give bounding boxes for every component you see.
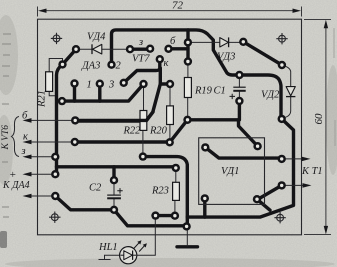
wire: K DA4 trace to C2 bottom and ground pad bbox=[55, 196, 186, 226]
wire: VD1 BR pad stub to diagonal bbox=[257, 199, 270, 210]
pad VD2 bottom bbox=[278, 115, 286, 123]
wire: b arrow line bbox=[31, 119, 75, 121]
wire: VD2 diode line bbox=[282, 65, 291, 117]
wire: VD1 BL pad stub down bbox=[203, 198, 206, 217]
pad VD3 right bbox=[239, 38, 247, 46]
left connection arrows bbox=[31, 120, 75, 196]
mounting hole top-left bbox=[51, 33, 62, 44]
wire: R20 top lead bbox=[169, 84, 171, 106]
pad C1 bottom bbox=[235, 97, 243, 105]
wire: pads 1/2 stub row to y101 trace bbox=[75, 84, 100, 102]
pad R22 top bbox=[139, 80, 147, 88]
pad b top bbox=[164, 45, 172, 53]
wire: VD3 right pad diagonal to VD2 top pad bbox=[243, 42, 282, 65]
wire: R19 bottom lead bbox=[187, 98, 189, 120]
pad VD4 right bbox=[126, 45, 134, 53]
svg-text:R20: R20 bbox=[149, 126, 168, 137]
wire: C1 leads bbox=[238, 75, 240, 101]
wire: K-line horizontal bbox=[75, 140, 170, 143]
wire: C2 top pad stub up bbox=[112, 167, 115, 180]
svg-text:1: 1 bbox=[87, 80, 92, 91]
svg-text:С2: С2 bbox=[89, 183, 102, 194]
wire: k-line down with branches bbox=[124, 59, 160, 83]
brace for K VT6 bbox=[12, 117, 20, 157]
wire: C1 bottom pad down to junction bbox=[238, 101, 241, 120]
diode VD3 bbox=[220, 37, 229, 47]
wire: junction diagonal into VD1 top-right pad bbox=[239, 120, 258, 146]
relay box VD1 bbox=[199, 138, 265, 205]
wire: R22 bottom pad to ground vertical bbox=[143, 157, 187, 227]
pad VD3 left bbox=[184, 38, 192, 46]
dimension: right 60 bbox=[304, 20, 331, 235]
pad R22 bottom bbox=[139, 152, 147, 160]
wire: VD4 diode line bbox=[76, 48, 130, 50]
wire: VD3 diode line bbox=[188, 41, 243, 43]
pad C1 top bbox=[235, 71, 243, 79]
svg-text:К VТ6: К VТ6 bbox=[1, 125, 11, 151]
pad Z line bbox=[51, 153, 59, 161]
pad b line bbox=[71, 116, 79, 124]
pad R23 bottom bbox=[171, 212, 179, 220]
svg-text:К ДА4: К ДА4 bbox=[2, 180, 30, 191]
svg-text:VД2: VД2 bbox=[261, 90, 280, 101]
wire: K arrow line bbox=[31, 141, 75, 143]
wire: R23 bottom bar to HL1 pad bbox=[156, 214, 175, 217]
mounting hole bottom-right bbox=[274, 212, 285, 223]
pad VD1 top-right bbox=[253, 142, 261, 150]
capacitor C1 bbox=[230, 87, 246, 99]
pad VD1 bottom-left bbox=[201, 194, 209, 202]
pad VD2 top bbox=[278, 61, 286, 69]
board outline bbox=[38, 19, 302, 235]
pad k bbox=[156, 55, 164, 63]
pad K line bbox=[71, 138, 79, 146]
wire: plus arrow line bbox=[31, 173, 55, 175]
pad VD1 bottom-right bbox=[253, 195, 261, 203]
wire: branch down to VD3 left pad and R19 top pad bbox=[186, 30, 189, 62]
resistor R22 bbox=[140, 111, 147, 131]
wire: HL1 left lead to ground stub bbox=[99, 255, 120, 259]
wire: VD1 TL pad to K T1 pad bbox=[205, 147, 281, 158]
pad y101 left bbox=[58, 97, 66, 105]
pad R19 top bbox=[184, 57, 192, 65]
pad 3-bar right bbox=[146, 45, 154, 53]
dimension: top 72 bbox=[38, 7, 302, 17]
resistor R21 bbox=[46, 72, 53, 92]
right connection arrows K T1 bbox=[282, 159, 304, 186]
svg-text:к: к bbox=[23, 132, 28, 143]
svg-text:К Т1: К Т1 bbox=[301, 166, 323, 177]
svg-text:НL1: НL1 bbox=[98, 242, 118, 253]
resistor R19 bbox=[184, 78, 191, 98]
wire: ground bar under board bbox=[177, 245, 198, 248]
svg-text:VД4: VД4 bbox=[87, 32, 106, 43]
capacitor C2 bbox=[107, 188, 123, 198]
wire: C2 leads bbox=[113, 180, 115, 210]
pad VD4 left bbox=[72, 45, 80, 53]
diode VD2 (vertical, pointing down) bbox=[286, 87, 295, 97]
wire: R19 top lead bbox=[187, 62, 189, 78]
pad R23 top bbox=[172, 164, 180, 172]
wire: HL1 lead from pad down and to LED bbox=[137, 216, 155, 256]
wire: Z arrow line bbox=[31, 156, 55, 158]
wire: R22 top lead bbox=[143, 84, 145, 112]
wire: R23 bottom lead bbox=[174, 200, 176, 215]
page-gutter smudges left edge bbox=[0, 231, 7, 248]
pad HL1 bbox=[151, 211, 159, 219]
svg-text:С1: С1 bbox=[214, 86, 226, 97]
wire: branch right to R23 top pad bbox=[57, 165, 176, 168]
svg-text:VТ7: VТ7 bbox=[132, 54, 150, 65]
svg-text:R21: R21 bbox=[37, 90, 48, 108]
svg-text:ДА3: ДА3 bbox=[81, 61, 100, 72]
pad 1 bbox=[96, 80, 104, 88]
svg-text:б: б bbox=[170, 36, 176, 47]
pad row pin bbox=[70, 79, 78, 87]
wire: R22 bottom lead bbox=[142, 130, 144, 156]
mounting hole bottom-left bbox=[49, 212, 60, 223]
wire: left vertical x56.5 from pad7 down to plus pad bbox=[57, 64, 63, 174]
resistor R23 bbox=[173, 182, 180, 200]
pad K DA4 bbox=[51, 192, 59, 200]
svg-text:R19: R19 bbox=[194, 86, 213, 97]
pad C2 top bbox=[110, 176, 118, 184]
pad K T1 upper bbox=[278, 155, 286, 163]
svg-text:2: 2 bbox=[116, 61, 122, 72]
svg-text:3: 3 bbox=[108, 80, 114, 91]
LED HL1 bbox=[120, 240, 147, 264]
wire: ground horizontal branch right and up diagonal to VD2 net bbox=[187, 119, 293, 217]
svg-text:з: з bbox=[21, 146, 26, 157]
svg-text:60: 60 bbox=[313, 113, 325, 125]
wire: b-line trace over R22 bbox=[75, 112, 153, 120]
wire: R21 top lead bbox=[49, 59, 62, 72]
svg-text:к: к bbox=[164, 58, 169, 69]
pad VD1 top-left bbox=[201, 143, 209, 151]
wire: VD4 left pad diagonal to pad7 bbox=[63, 49, 77, 64]
wire: pad A-B diagonal bar bbox=[258, 185, 282, 199]
svg-text:б: б bbox=[22, 111, 28, 122]
svg-text:VД1: VД1 bbox=[221, 166, 239, 177]
wire: R21 bottom lead bbox=[49, 91, 55, 95]
wire: b pad stub to vertical bbox=[169, 47, 188, 50]
wire: K DA4 arrow line bbox=[31, 195, 55, 197]
pad C2 bottom bbox=[110, 206, 118, 214]
pad 3 bbox=[120, 79, 128, 87]
wire: R23 top lead bbox=[175, 168, 177, 182]
wire: R19 junction diagonal to R20 bottom pad bbox=[170, 120, 188, 143]
diode VD4 bbox=[92, 44, 102, 54]
svg-text:R22: R22 bbox=[123, 126, 142, 137]
svg-text:R23: R23 bbox=[151, 186, 169, 197]
svg-text:з: з bbox=[138, 37, 143, 48]
wire: pad2 long top trace to VD2 bottom pad bbox=[112, 30, 282, 119]
pad plus line bbox=[51, 170, 59, 178]
pad ground bbox=[182, 222, 190, 230]
pad R20 bottom junction bbox=[166, 138, 174, 146]
svg-text:VД3: VД3 bbox=[217, 52, 235, 63]
resistor R20 bbox=[167, 106, 174, 125]
wire: y101 trace to R22 top pad bbox=[62, 84, 144, 101]
wire: R20 bottom lead bbox=[169, 125, 171, 143]
svg-text:72: 72 bbox=[172, 0, 184, 12]
wire: ground lead below board bbox=[186, 228, 188, 247]
pad R20 top bbox=[166, 80, 174, 88]
pad R19 bottom junction bbox=[183, 116, 191, 124]
pad 2 bbox=[107, 60, 115, 68]
mounting hole top-right bbox=[276, 33, 287, 44]
wire: 3-bar pads bbox=[130, 48, 150, 51]
wire: R19 bottom junction horizontal to C1 vertical bbox=[188, 118, 239, 121]
pad 7 left of DA3 bbox=[58, 60, 66, 68]
pad K T1 lower bbox=[278, 181, 286, 189]
